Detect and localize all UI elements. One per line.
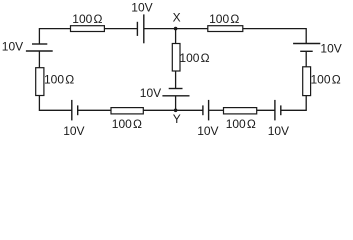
svg-text:100Ω: 100Ω	[72, 12, 102, 26]
svg-text:100Ω: 100Ω	[209, 12, 239, 26]
svg-text:10V: 10V	[268, 124, 289, 138]
svg-text:10V: 10V	[2, 40, 23, 54]
svg-text:100Ω: 100Ω	[44, 73, 74, 87]
svg-text:10V: 10V	[63, 124, 84, 138]
svg-text:10V: 10V	[320, 41, 341, 55]
svg-text:X: X	[173, 11, 181, 25]
svg-text:100Ω: 100Ω	[226, 117, 256, 131]
svg-text:10V: 10V	[140, 86, 161, 100]
svg-text:10V: 10V	[197, 124, 218, 138]
svg-text:100Ω: 100Ω	[311, 73, 341, 87]
svg-text:10V: 10V	[131, 0, 152, 14]
svg-text:Y: Y	[173, 112, 181, 126]
svg-text:100Ω: 100Ω	[112, 117, 142, 131]
svg-text:100Ω: 100Ω	[179, 51, 209, 65]
